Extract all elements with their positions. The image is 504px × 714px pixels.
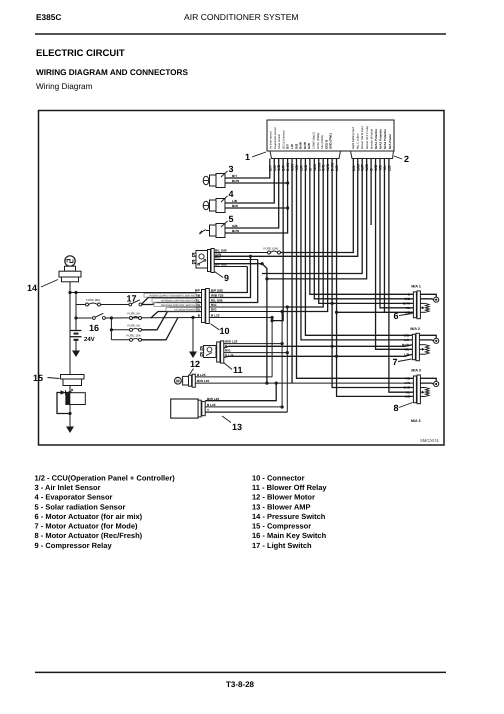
svg-text:Y/L: Y/L xyxy=(405,306,410,310)
motor actuator M/A1 (component 6) xyxy=(394,284,439,321)
wire key switch through fuse 5A no1 to connector 10 (W/G and B rows) xyxy=(105,312,201,320)
svg-text:G/W: G/W xyxy=(307,143,311,149)
pin labels of connectors 1 and 2 xyxy=(268,162,391,171)
wire connector10 row6 ground bus xyxy=(191,316,273,319)
caption xyxy=(36,82,93,91)
legend left column xyxy=(35,473,176,550)
svg-text:2: 2 xyxy=(404,154,409,164)
svg-text:W/B: W/B xyxy=(404,297,411,301)
fuse F5 FUSE (5A) on relay row1 xyxy=(214,247,280,255)
svg-text:Br/W: Br/W xyxy=(403,302,410,306)
svg-text:10: 10 xyxy=(220,326,230,336)
wire relay row3 xyxy=(214,259,258,261)
svg-text:14: 14 xyxy=(27,283,37,293)
svg-text:FUSE 5A: FUSE 5A xyxy=(128,324,141,328)
svg-text:14 - Pressure Switch: 14 - Pressure Switch xyxy=(252,512,326,521)
svg-text:10 - Connector: 10 - Connector xyxy=(252,473,305,482)
header rule xyxy=(35,33,446,35)
blower motor 12 xyxy=(175,359,210,387)
connector 10 xyxy=(194,289,230,337)
svg-text:FUSE (5A): FUSE (5A) xyxy=(264,247,279,251)
pressure switch 14 xyxy=(27,256,81,293)
wire amp row3 xyxy=(205,411,287,413)
connector 1 strip xyxy=(270,151,341,159)
svg-text:L/W: L/W xyxy=(405,381,411,385)
wire c1-p9 to actuator M/A2 row1 xyxy=(305,159,412,336)
wire c1-p11 to actuator M/A1 row2 xyxy=(314,159,413,299)
svg-text:Blower OFF P relay: Blower OFF P relay xyxy=(366,125,369,149)
svg-text:12: 12 xyxy=(190,359,200,369)
wire c1-p14 to connector 10 row5 xyxy=(281,159,328,314)
svg-text:Y/B: Y/B xyxy=(405,376,411,380)
svg-text:8 - Motor Actuator (Rec/Fresh): 8 - Motor Actuator (Rec/Fresh) xyxy=(35,531,143,540)
svg-text:1: 1 xyxy=(245,152,250,162)
wire blower motor row B/W long bus to actuator M/A3 row2 xyxy=(195,382,413,385)
wire c1-p4 ground bus to node at x272 xyxy=(272,159,283,321)
svg-text:8: 8 xyxy=(394,403,399,413)
wire relay11 row2 long to actuator M/A2 row3 xyxy=(224,345,413,348)
wire light switch to connector 10 row2 (W/B) xyxy=(142,298,202,305)
clutch coil xyxy=(66,386,86,424)
svg-text:Mg. C output: Mg. C output xyxy=(357,133,360,149)
wire c1-p12 to actuator M/A1 row3 xyxy=(319,159,414,306)
wire connector10 row3 up to relay row3 xyxy=(209,260,257,303)
svg-text:13 - Blower AMP: 13 - Blower AMP xyxy=(252,502,310,511)
svg-text:POWER SUPPLY FOR NIGHT LIGHTIN: POWER SUPPLY FOR NIGHT LIGHTING xyxy=(149,294,195,297)
wire ground bus x272 to blower motor row xyxy=(271,318,274,377)
wire blower motor row B to ground bus xyxy=(195,376,272,378)
svg-text:Wiring Diagram: Wiring Diagram xyxy=(36,82,93,91)
evaporator sensor 4 xyxy=(203,189,238,213)
svg-text:M/A3 Potentio: M/A3 Potentio xyxy=(383,129,387,149)
svg-text:M/A Power: M/A Power xyxy=(388,133,392,149)
svg-text:FUSE 15A: FUSE 15A xyxy=(127,334,141,338)
wire c1-p16 L/B bus to actuators xyxy=(335,159,413,397)
wire x282 vertical conn10row5 to relay11 row1 and amp row2 xyxy=(281,312,284,409)
footer rule xyxy=(35,671,446,673)
svg-text:5 - Solar radiation Sensor: 5 - Solar radiation Sensor xyxy=(35,502,126,511)
wire relay row3b drive to blower bus xyxy=(214,262,268,385)
wire relay11 row4 long to actuator M/A2 row5 xyxy=(224,354,413,357)
svg-text:3 - Air Inlet Sensor: 3 - Air Inlet Sensor xyxy=(35,483,101,492)
wire relay11 row3 xyxy=(224,352,287,354)
svg-text:FUSE 20A: FUSE 20A xyxy=(86,298,100,302)
svg-text:GND (PWL): GND (PWL) xyxy=(329,133,333,149)
svg-text:Br/W: Br/W xyxy=(232,179,239,183)
wire supply vertical x76 xyxy=(74,291,77,320)
node label 2 xyxy=(394,154,409,164)
node label 1 xyxy=(245,152,266,162)
svg-text:Br/B: Br/B xyxy=(404,386,411,390)
svg-text:L/B: L/B xyxy=(405,395,411,399)
svg-text:11 - Blower Off Relay: 11 - Blower Off Relay xyxy=(252,483,327,492)
footer page number xyxy=(226,680,255,689)
svg-text:Solar sensor: Solar sensor xyxy=(278,134,281,149)
svg-text:M/A 3: M/A 3 xyxy=(411,419,420,423)
wire connector10 row5 right xyxy=(209,311,282,313)
ground arrow middle xyxy=(189,318,197,359)
svg-text:Y/L: Y/L xyxy=(404,347,409,351)
svg-text:9 - Compressor Relay: 9 - Compressor Relay xyxy=(35,541,113,550)
wire connector10 row2 up to relay row2 xyxy=(209,256,250,297)
clutch diode branch xyxy=(57,390,72,415)
svg-text:6 - Motor Actuator (for air mi: 6 - Motor Actuator (for air mix) xyxy=(35,512,143,521)
wire connector10 row1 to compressor relay row4 xyxy=(209,267,247,293)
svg-text:Monitor M/ Mode: Monitor M/ Mode xyxy=(370,128,373,149)
svg-text:M/A 3: M/A 3 xyxy=(411,369,420,373)
svg-text:L/B: L/B xyxy=(232,199,238,203)
op-amp/controller CCU U1 (components 1/2) xyxy=(267,120,394,151)
svg-text:FUSE 5A: FUSE 5A xyxy=(128,312,141,316)
svg-text:WIRING DIAGRAM AND CONNECTORS: WIRING DIAGRAM AND CONNECTORS xyxy=(36,68,188,77)
svg-text:G/B: G/B xyxy=(404,333,410,337)
wire x287 vertical conn10row4 to relay11 row3 and amp row3 xyxy=(286,307,289,412)
wire c1-p15 Br/W bus to actuators xyxy=(331,159,414,388)
wire c1-p5 sensor return bus xyxy=(225,159,289,234)
fuse F1 FUSE 20A xyxy=(76,298,129,306)
label M/A 3 duplicate below xyxy=(411,419,420,423)
svg-text:3: 3 xyxy=(229,164,234,174)
motor actuator M/A2 (component 7) xyxy=(393,327,439,367)
wire amp row1 up to motor bus xyxy=(205,383,276,401)
svg-text:ANTENNA CONTROL SWITCH: ANTENNA CONTROL SWITCH xyxy=(161,304,196,307)
wire c2-q5 stub xyxy=(370,159,372,226)
wire c1-p2 to sensor 4 xyxy=(225,159,274,204)
fuse F3 FUSE 5A no2 to connector 10 row4 xyxy=(111,307,201,331)
wire relay row4 xyxy=(214,266,247,268)
svg-text:M: M xyxy=(176,379,180,384)
compressor 15 xyxy=(33,373,84,392)
svg-text:1/2 - CCU(Operation Panel + Co: 1/2 - CCU(Operation Panel + Controller) xyxy=(35,473,176,482)
sub heading xyxy=(36,68,188,77)
svg-text:COMP (Mg.C): COMP (Mg.C) xyxy=(313,132,316,149)
blower off relay 11 xyxy=(201,340,243,375)
wire c2-q2 to compressor relay row2 xyxy=(214,159,358,258)
svg-text:5: 5 xyxy=(229,214,234,224)
svg-text:11: 11 xyxy=(233,365,243,375)
svg-text:Br/W: Br/W xyxy=(402,343,409,347)
svg-text:17 - Light Switch: 17 - Light Switch xyxy=(252,541,312,550)
svg-text:Br/W: Br/W xyxy=(232,229,239,233)
wire c1-p3 to sensor 5 xyxy=(225,159,279,229)
wire c1-p10 to actuator M/A1 row1 xyxy=(310,159,414,295)
svg-text:T3-8-28: T3-8-28 xyxy=(226,680,255,689)
svg-text:E385C: E385C xyxy=(36,12,61,22)
svg-text:M/A1 Potentio: M/A1 Potentio xyxy=(374,129,378,149)
legend right column xyxy=(252,473,327,550)
svg-text:13: 13 xyxy=(232,422,242,432)
ground below compressor xyxy=(66,414,74,434)
diagram border frame xyxy=(39,111,445,446)
svg-text:L/B: L/B xyxy=(404,352,410,356)
svg-text:B/W: B/W xyxy=(232,204,238,208)
wire c1-p8 to actuator M/A2 row2 xyxy=(301,159,412,340)
svg-text:15 - Compressor: 15 - Compressor xyxy=(252,522,311,531)
wire c2-q9 to actuator M/A3 row4 xyxy=(389,159,414,393)
connector 2 strip xyxy=(351,151,394,159)
svg-text:24V: 24V xyxy=(84,336,95,343)
wire c1-p1 to sensor 3 xyxy=(225,159,270,179)
wire connector10 row4 right xyxy=(209,306,287,308)
svg-text:7: 7 xyxy=(393,357,398,367)
wire c2-q1 to fuse 5A compressor circuit xyxy=(281,159,354,253)
blower AMP 13 xyxy=(171,397,242,432)
svg-text:15: 15 xyxy=(33,373,43,383)
fuse F4 FUSE 15A to connector 10 row6 xyxy=(111,318,178,342)
wire c2-q4 to relay drive node xyxy=(265,159,366,281)
header model number xyxy=(36,12,61,22)
wire c2-q8 to actuator M/A1 row5 xyxy=(383,159,385,313)
svg-text:7 - Motor Actuator (for Mode): 7 - Motor Actuator (for Mode) xyxy=(35,522,139,531)
wire c2-q3 stub xyxy=(262,159,362,274)
svg-text:Night lighting input: Night lighting input xyxy=(352,127,355,149)
header title xyxy=(184,12,299,22)
svg-text:L/R: L/R xyxy=(404,338,410,342)
feature labels on lighting wires xyxy=(144,293,196,311)
svg-text:4 - Evaporator Sensor: 4 - Evaporator Sensor xyxy=(35,493,113,502)
svg-text:ANTENNA LIGHTING SWITCH: ANTENNA LIGHTING SWITCH xyxy=(161,299,195,302)
svg-text:6: 6 xyxy=(394,311,399,321)
section heading xyxy=(36,48,125,59)
svg-text:G/B: G/B xyxy=(232,224,238,228)
wire M/A1 row5 from L/B bus xyxy=(337,311,414,313)
wire c1-p7 to actuator M/A3 row1 xyxy=(297,159,414,379)
wire c2-q6 to actuator M/A2 row4 xyxy=(376,159,413,350)
svg-text:AIR CONDITIONER SYSTEM: AIR CONDITIONER SYSTEM xyxy=(184,12,299,22)
svg-text:Evaporator sensor: Evaporator sensor xyxy=(274,127,277,149)
wire pressure switch to connector 10 row1 (B/P) xyxy=(68,282,201,294)
svg-text:M/A 1: M/A 1 xyxy=(411,284,420,288)
svg-text:DC5V (PWM): DC5V (PWM) xyxy=(317,133,320,149)
svg-text:16: 16 xyxy=(89,323,99,333)
drawing number SMC0074 xyxy=(420,438,439,443)
wire c1-p6 to blower motor bus xyxy=(291,159,293,384)
air inlet sensor 3 xyxy=(203,164,239,188)
wire relay11 row1 xyxy=(224,343,282,345)
main key switch 16 xyxy=(76,313,105,333)
compressor relay 9 xyxy=(193,249,230,284)
svg-text:SMC0074: SMC0074 xyxy=(420,438,439,443)
svg-text:12 - Blower Motor: 12 - Blower Motor xyxy=(252,493,315,502)
svg-text:Blower SW M input: Blower SW M input xyxy=(361,126,364,149)
wire fuse feed vertical xyxy=(110,318,113,340)
svg-text:ELECTRIC CIRCUIT: ELECTRIC CIRCUIT xyxy=(36,48,125,59)
motor actuator M/A3 (component 8) xyxy=(394,369,439,414)
wire c1-p13 to connector 10 row4 xyxy=(286,159,324,309)
svg-text:B/P: B/P xyxy=(195,289,200,293)
solar radiation sensor 5 xyxy=(199,214,239,238)
svg-text:A/C MAIN POWER: A/C MAIN POWER xyxy=(174,308,195,311)
wire c2-q7 to actuator M/A1 row4 xyxy=(380,159,413,308)
svg-text:M/A 2: M/A 2 xyxy=(410,327,419,331)
wire amp row2 xyxy=(205,406,282,408)
battery 24V xyxy=(71,318,95,343)
svg-text:17: 17 xyxy=(127,294,137,304)
wire main vertical from pressure switch to compressor xyxy=(69,293,71,375)
svg-text:4: 4 xyxy=(229,189,234,199)
svg-text:16 - Main Key Switch: 16 - Main Key Switch xyxy=(252,531,327,540)
svg-text:Air inlet sensor: Air inlet sensor xyxy=(270,131,273,149)
ground below battery xyxy=(72,340,80,357)
wire relay row2 xyxy=(214,255,250,257)
svg-text:M/A2 Potentio: M/A2 Potentio xyxy=(379,129,383,149)
wire light switch to connector 10 row3 (R/L) xyxy=(142,303,202,305)
light switch 17 xyxy=(127,294,142,306)
svg-text:9: 9 xyxy=(224,273,229,283)
